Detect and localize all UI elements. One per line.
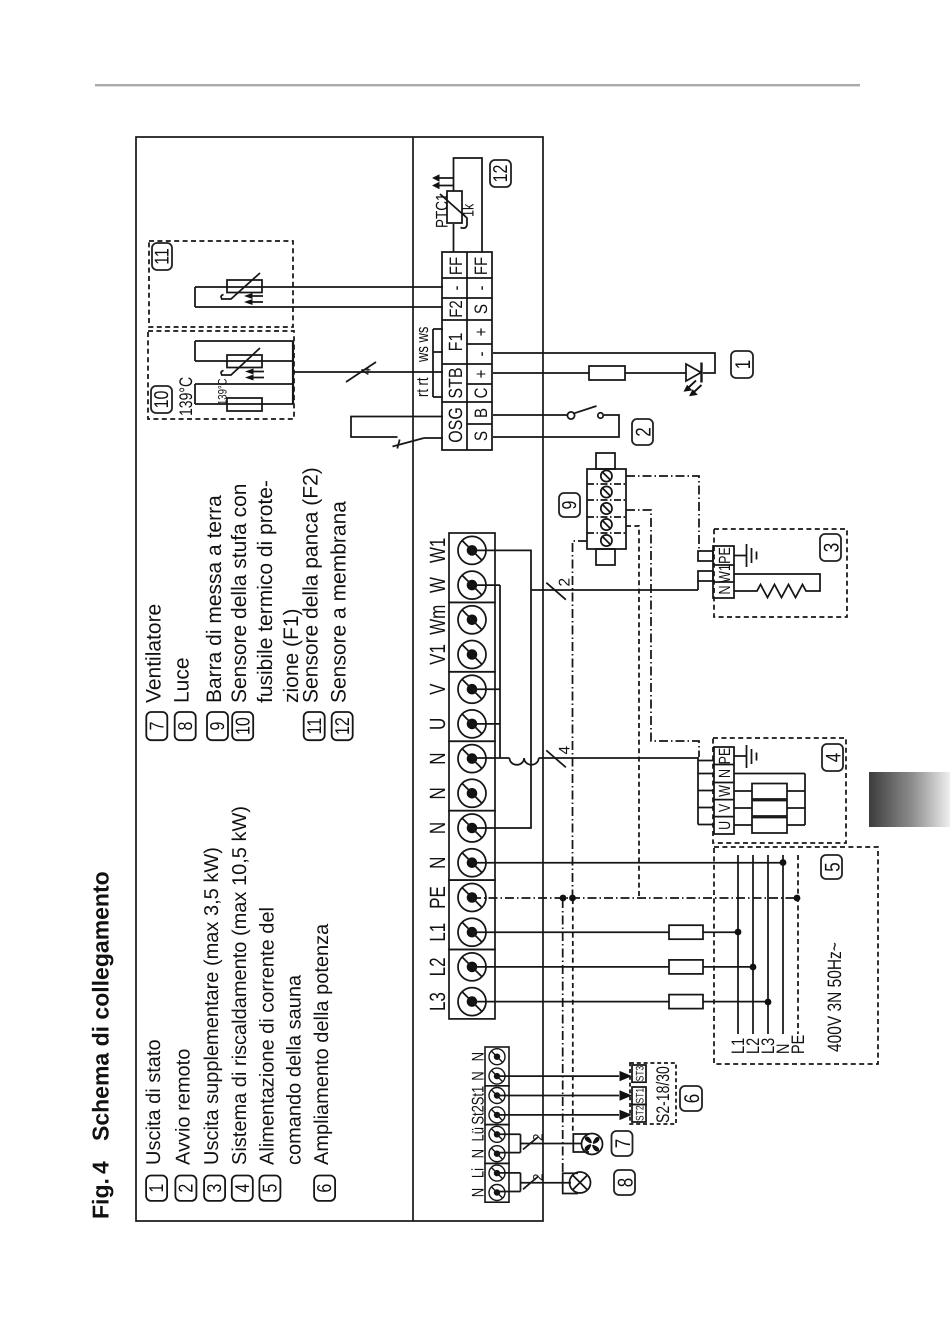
supply labels (729, 1034, 809, 1054)
svg-text:U: U (426, 718, 451, 730)
svg-text:V1: V1 (426, 644, 451, 665)
wire St2 to ST2 (497, 1114, 619, 1116)
svg-text:3: 3 (820, 543, 844, 552)
svg-text:St2: St2 (468, 1105, 488, 1125)
wire N1 to coil (472, 757, 510, 759)
wire remote start (493, 415, 619, 437)
PE wire bar to main heater (dash-dot) (626, 510, 699, 757)
sensor cable 4-core (293, 371, 433, 373)
svg-text:4: 4 (822, 753, 846, 762)
svg-text:4: 4 (359, 367, 374, 375)
wire St1 to ST1 (497, 1095, 619, 1097)
legend item 7 (142, 604, 168, 740)
main strip labels (426, 538, 451, 1011)
svg-text:C: C (471, 387, 491, 398)
svg-text:N: N (716, 769, 734, 778)
legend ref 7 (611, 1131, 635, 1156)
fuse L2 (669, 960, 703, 974)
svg-text:4: 4 (88, 1161, 114, 1174)
svg-text:3: 3 (205, 1184, 226, 1193)
lamp cable bracket (497, 1173, 521, 1192)
svg-text:V: V (426, 683, 451, 695)
svg-text:ws ws: ws ws (412, 326, 432, 363)
svg-text:F2: F2 (446, 300, 466, 318)
lamp E4 (570, 1172, 591, 1193)
wire OSG loop (351, 417, 443, 438)
svg-text:N: N (468, 1052, 488, 1061)
svg-text:10: 10 (233, 717, 254, 735)
supply junction dots (735, 859, 787, 1005)
legend item 1 (143, 1039, 168, 1201)
main terminal strip X1 (449, 533, 495, 1019)
svg-text:Sensore della panca (F2): Sensore della panca (F2) (300, 467, 323, 703)
svg-text:9: 9 (208, 722, 229, 731)
heating element E3 (752, 818, 787, 834)
svg-text:ST1: ST1 (633, 1088, 646, 1104)
svg-text:7: 7 (611, 1139, 635, 1148)
svg-text:139°C: 139°C (175, 377, 196, 416)
conductor down to fan (dashed) (572, 899, 574, 1134)
svg-text:W1: W1 (426, 538, 451, 564)
legend item 4 (229, 806, 254, 1201)
fan housing wrap (573, 1134, 589, 1152)
legend item 3 (201, 847, 226, 1201)
svg-text:Sistema di riscaldamento (max: Sistema di riscaldamento (max 10,5 kW) (229, 806, 251, 1165)
ground symbol aux (734, 544, 757, 567)
wire OSG diagonal jog (393, 438, 444, 447)
svg-text:L3: L3 (426, 992, 451, 1011)
legend ref 9 (559, 493, 581, 517)
bench sensor arrows (244, 293, 263, 305)
svg-text:STB: STB (446, 367, 466, 398)
PE junction dots (560, 895, 801, 902)
lamp housing wrap (563, 1173, 578, 1193)
svg-text:-: - (446, 286, 466, 291)
wire heater cable /4 (539, 757, 698, 759)
svg-text:Schema di collegamento: Schema di collegamento (88, 871, 114, 1141)
svg-text:2: 2 (176, 1184, 197, 1193)
svg-text:N: N (468, 1188, 488, 1197)
wire W1 to N bridge (472, 550, 531, 828)
svg-text:9: 9 (560, 500, 581, 509)
svg-text:+: + (471, 327, 491, 336)
heater feed ladder (698, 757, 714, 825)
heating element E1 (752, 784, 787, 800)
aux heating element R2 (zigzag) (734, 574, 820, 598)
fan M1 (579, 1131, 606, 1158)
PE wire bar to strip PE (dash-dot) (573, 541, 588, 899)
heating element E2 (752, 801, 787, 817)
legend item 5 (256, 907, 305, 1201)
svg-text:6: 6 (680, 1094, 704, 1103)
membrane sensor PTC1 body (447, 191, 462, 223)
supply conductor L2 (752, 855, 754, 1034)
svg-text:6: 6 (315, 1184, 336, 1193)
legend ref 3 (820, 534, 844, 561)
svg-text:PE: PE (716, 748, 734, 765)
svg-text:PE: PE (789, 1034, 809, 1054)
supply conductor L1 (737, 855, 739, 1034)
cable mark /2 lamp (523, 1177, 538, 1190)
svg-text:12: 12 (491, 165, 512, 183)
wire FF to PTC1 (454, 158, 483, 252)
svg-text:Wm: Wm (426, 605, 451, 635)
panel divider (412, 137, 414, 1221)
svg-text:1: 1 (731, 360, 755, 369)
svg-text:ST3: ST3 (633, 1066, 646, 1082)
supply conductor PE (dashed) (797, 855, 799, 1034)
svg-text:1k: 1k (460, 203, 478, 217)
cable tick (397, 440, 399, 449)
legend item 11 (300, 467, 326, 740)
svg-text:Sensore a membrana: Sensore a membrana (328, 501, 351, 703)
conductor down to lamp (dash-dot) (562, 899, 564, 1173)
low voltage terminal strip X3 (485, 1047, 509, 1202)
wire /2 into W1 (697, 581, 699, 590)
sensor strip pin labels S B C + - + S - FF (471, 257, 491, 441)
svg-text:5: 5 (260, 1184, 281, 1193)
aux strip tabs (698, 551, 713, 561)
svg-text:ST2: ST2 (633, 1105, 646, 1121)
legend ref 12 (490, 160, 512, 187)
heater wiring (734, 774, 805, 826)
svg-text:N: N (426, 752, 451, 764)
legend item 9 (203, 495, 229, 740)
stove thermistor body (227, 355, 262, 368)
svg-text:PE: PE (426, 886, 451, 909)
svg-text:comando della sauna: comando della sauna (283, 974, 305, 1165)
svg-text:S: S (471, 304, 491, 314)
svg-text:4: 4 (233, 1184, 254, 1193)
legend item 2 (172, 1049, 197, 1201)
svg-text:V: V (716, 803, 734, 812)
sensor strip group labels OSG STB F1 F2 - FF (446, 257, 466, 443)
svg-text:Li: Li (468, 1168, 488, 1178)
legend item 6 (311, 923, 336, 1201)
svg-text:fusibile termico di prote-: fusibile termico di prote- (254, 480, 277, 703)
svg-text:2: 2 (557, 578, 574, 587)
stove sensor arrows (245, 369, 264, 381)
svg-text:11: 11 (152, 248, 173, 265)
sauna heater enclosure (4) (713, 738, 846, 843)
svg-text:N: N (468, 1071, 488, 1080)
stove sensor bus (292, 341, 294, 404)
wire to fan (521, 1143, 583, 1145)
svg-text:L1: L1 (426, 923, 451, 942)
PE wire bar to supply (dashed) (626, 526, 639, 899)
fuse L3 (669, 995, 703, 1009)
svg-text:St1: St1 (468, 1086, 488, 1106)
svg-text:2: 2 (531, 1133, 546, 1141)
legend item 10 (228, 480, 303, 740)
resistor R1 (589, 366, 625, 380)
coil L1 (510, 758, 539, 765)
fuse L1 (669, 925, 703, 939)
bench sensor thermistor diagonal (221, 273, 260, 299)
svg-text:W: W (716, 785, 734, 797)
legend ref 8 (614, 1170, 638, 1195)
bench sensor thermistor body (227, 280, 262, 293)
svg-text:W: W (426, 577, 451, 593)
legend ref 5 (821, 855, 845, 879)
stove sensor F1 enclosure (10) (148, 331, 294, 419)
svg-text:rt rt: rt rt (412, 377, 432, 397)
svg-text:10: 10 (152, 391, 173, 409)
auxiliary output enclosure (3) (714, 529, 847, 617)
cable mark /2 fan (523, 1137, 538, 1150)
svg-text:Barra di messa a terra: Barra di messa a terra (203, 495, 226, 703)
svg-text:-: - (471, 352, 491, 357)
switch S1 (567, 406, 603, 419)
thermal fuse F1 body (227, 398, 262, 411)
legend ref 6 (680, 1086, 704, 1111)
cable mark /4 (546, 750, 566, 767)
low voltage strip screws (489, 1049, 505, 1201)
mains supply enclosure (5) (714, 847, 878, 1064)
sensor terminal strip X2 (442, 252, 492, 450)
svg-text:Lü: Lü (468, 1127, 488, 1141)
connector arrows (620, 1071, 633, 1120)
bench sensor F2 enclosure (11) (149, 241, 293, 327)
legend item 12 (328, 501, 354, 740)
heater terminal strip PE N W V U (714, 747, 734, 834)
stove thermistor diagonal (221, 348, 260, 375)
svg-text:PTC1: PTC1 (433, 193, 452, 228)
legend item 8 (171, 657, 197, 740)
wire bench sensor to strip (195, 287, 443, 307)
wire status output loop (493, 353, 715, 373)
svg-text:2: 2 (531, 1173, 546, 1181)
wire L1 (472, 931, 738, 933)
svg-text:N: N (426, 857, 451, 869)
svg-text:Ampliamento della potenza: Ampliamento della potenza (311, 923, 333, 1165)
svg-text:139°C: 139°C (216, 378, 230, 405)
svg-text:1: 1 (147, 1184, 168, 1193)
wire auxiliary output /2 (531, 589, 698, 591)
wire thermal fuse loop (195, 384, 293, 404)
wire to lamp (521, 1182, 572, 1184)
svg-text:N: N (468, 1149, 488, 1158)
wire PE dash-dot (472, 897, 797, 899)
svg-text:Sensore della stufa con: Sensore della stufa con (228, 484, 251, 703)
legend ref 1 (731, 351, 755, 378)
connector pins ST3 ST1 ST2 (632, 1065, 646, 1122)
low voltage strip labels (468, 1052, 488, 1197)
svg-text:N: N (426, 787, 451, 799)
svg-text:-: - (471, 286, 491, 291)
ground symbol heater (734, 745, 757, 768)
PE wire bar to aux heater (dash-dot) (626, 476, 699, 551)
control unit outline (136, 137, 543, 1221)
wire N to ST3 (497, 1075, 619, 1077)
earth bar (9) (587, 453, 626, 565)
svg-text:F1: F1 (446, 333, 466, 352)
wire stove thermistor loop (195, 341, 293, 361)
wire L3 (472, 1001, 768, 1003)
cable mark /4 (346, 362, 376, 382)
svg-text:400V 3N 50Hz~: 400V 3N 50Hz~ (825, 942, 846, 1052)
svg-text:S: S (471, 431, 491, 441)
cable mark /2 (546, 583, 566, 600)
svg-text:5: 5 (821, 862, 845, 871)
svg-text:7: 7 (147, 722, 168, 731)
svg-text:FF: FF (471, 257, 491, 275)
svg-text:8: 8 (614, 1178, 638, 1187)
legend ref 4 (822, 744, 846, 771)
svg-text:PE: PE (716, 547, 734, 564)
svg-text:S2-18/30: S2-18/30 (652, 1066, 673, 1123)
PTC1 membrane arrows (432, 174, 454, 189)
main strip screw terminals (458, 536, 486, 1015)
svg-text:4: 4 (557, 746, 574, 755)
supply conductor N (782, 855, 784, 1034)
LED D1 (684, 363, 702, 397)
aux terminal strip N W1 PE (713, 546, 734, 598)
sensor cable bracket tabs (433, 329, 443, 397)
svg-text:N: N (426, 822, 451, 834)
PTC1 thermistor diagonal (440, 194, 467, 228)
svg-text:+: + (471, 369, 491, 378)
svg-text:B: B (471, 408, 491, 418)
svg-text:FF: FF (446, 257, 466, 275)
svg-text:OSG: OSG (446, 407, 466, 443)
svg-text:Ventilatore: Ventilatore (142, 604, 165, 703)
svg-text:L2: L2 (426, 957, 451, 976)
remote connector S2-18/30 enclosure (6) (630, 1063, 676, 1124)
svg-text:11: 11 (305, 718, 326, 735)
svg-text:8: 8 (176, 722, 197, 731)
supply conductor L3 (767, 855, 769, 1034)
svg-text:Alimentazione di corrente del: Alimentazione di corrente del (256, 907, 278, 1165)
svg-text:Fig.: Fig. (88, 1178, 114, 1219)
page edge gradient tab (869, 772, 950, 827)
svg-text:W1: W1 (716, 564, 734, 583)
svg-text:Uscita di stato: Uscita di stato (143, 1039, 165, 1165)
svg-text:Luce: Luce (171, 657, 194, 703)
header rule (95, 84, 860, 86)
svg-text:Uscita supplementare (max 3,5: Uscita supplementare (max 3,5 kW) (201, 847, 223, 1165)
legend ref 2 (632, 419, 656, 445)
svg-text:Avvio remoto: Avvio remoto (172, 1049, 194, 1165)
fan cable bracket (497, 1134, 521, 1152)
svg-text:12: 12 (333, 717, 354, 735)
wire N4 to supply N (472, 862, 783, 864)
svg-text:U: U (716, 821, 734, 830)
wire L2 (472, 966, 753, 968)
wire W V U bus (472, 585, 500, 758)
svg-text:2: 2 (632, 427, 656, 436)
svg-text:N: N (716, 585, 734, 594)
